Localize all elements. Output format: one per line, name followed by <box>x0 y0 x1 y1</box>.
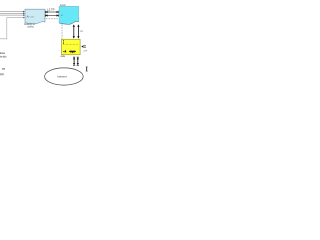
svg-text:L2TP: L2TP <box>84 51 88 53</box>
arrow horizontal 1 <box>45 11 58 13</box>
arrow horizontal 2 <box>45 15 58 17</box>
box yellow gateway <box>62 39 81 55</box>
arrow vertical pair bottom left <box>73 58 75 65</box>
box estacao de coleta (document shape) <box>25 9 45 24</box>
svg-text:L2 TP: L2 TP <box>47 7 55 11</box>
ellipse internet <box>45 68 84 85</box>
dotted line inside yellow <box>63 44 79 46</box>
glyph inside yellow top-left <box>62 40 64 44</box>
arrow vertical pair top right <box>77 25 79 38</box>
svg-text:c.: c. <box>61 14 63 17</box>
dotted link horizontal <box>45 18 58 20</box>
wire sensor input 3 <box>0 14 23 16</box>
svg-text:PPP: PPP <box>2 67 5 71</box>
right side arrows at yellow box <box>81 45 83 47</box>
glyph triangle inside yellow <box>63 51 64 52</box>
wire sensor input 1 <box>0 11 23 13</box>
arrow vertical pair top left <box>73 25 75 38</box>
svg-text:PPP,: PPP, <box>0 72 5 76</box>
svg-text:de rádio: de rádio <box>0 54 7 58</box>
box servidor (document shape cyan) <box>59 6 79 24</box>
small double arrow right of ellipse <box>86 67 88 70</box>
svg-text:Internet: Internet <box>57 75 66 79</box>
glyph cluster inside yellow <box>70 51 76 52</box>
svg-text:L2TP: L2TP <box>80 31 83 33</box>
dotted link vertical <box>61 24 63 39</box>
svg-text:coleta: coleta <box>27 25 34 28</box>
wire sensor input 4 L-shaped <box>0 18 23 39</box>
svg-text:rede: rede <box>61 55 66 58</box>
arrow vertical pair bottom right <box>77 58 79 65</box>
wire sensor input 2 <box>0 12 23 14</box>
